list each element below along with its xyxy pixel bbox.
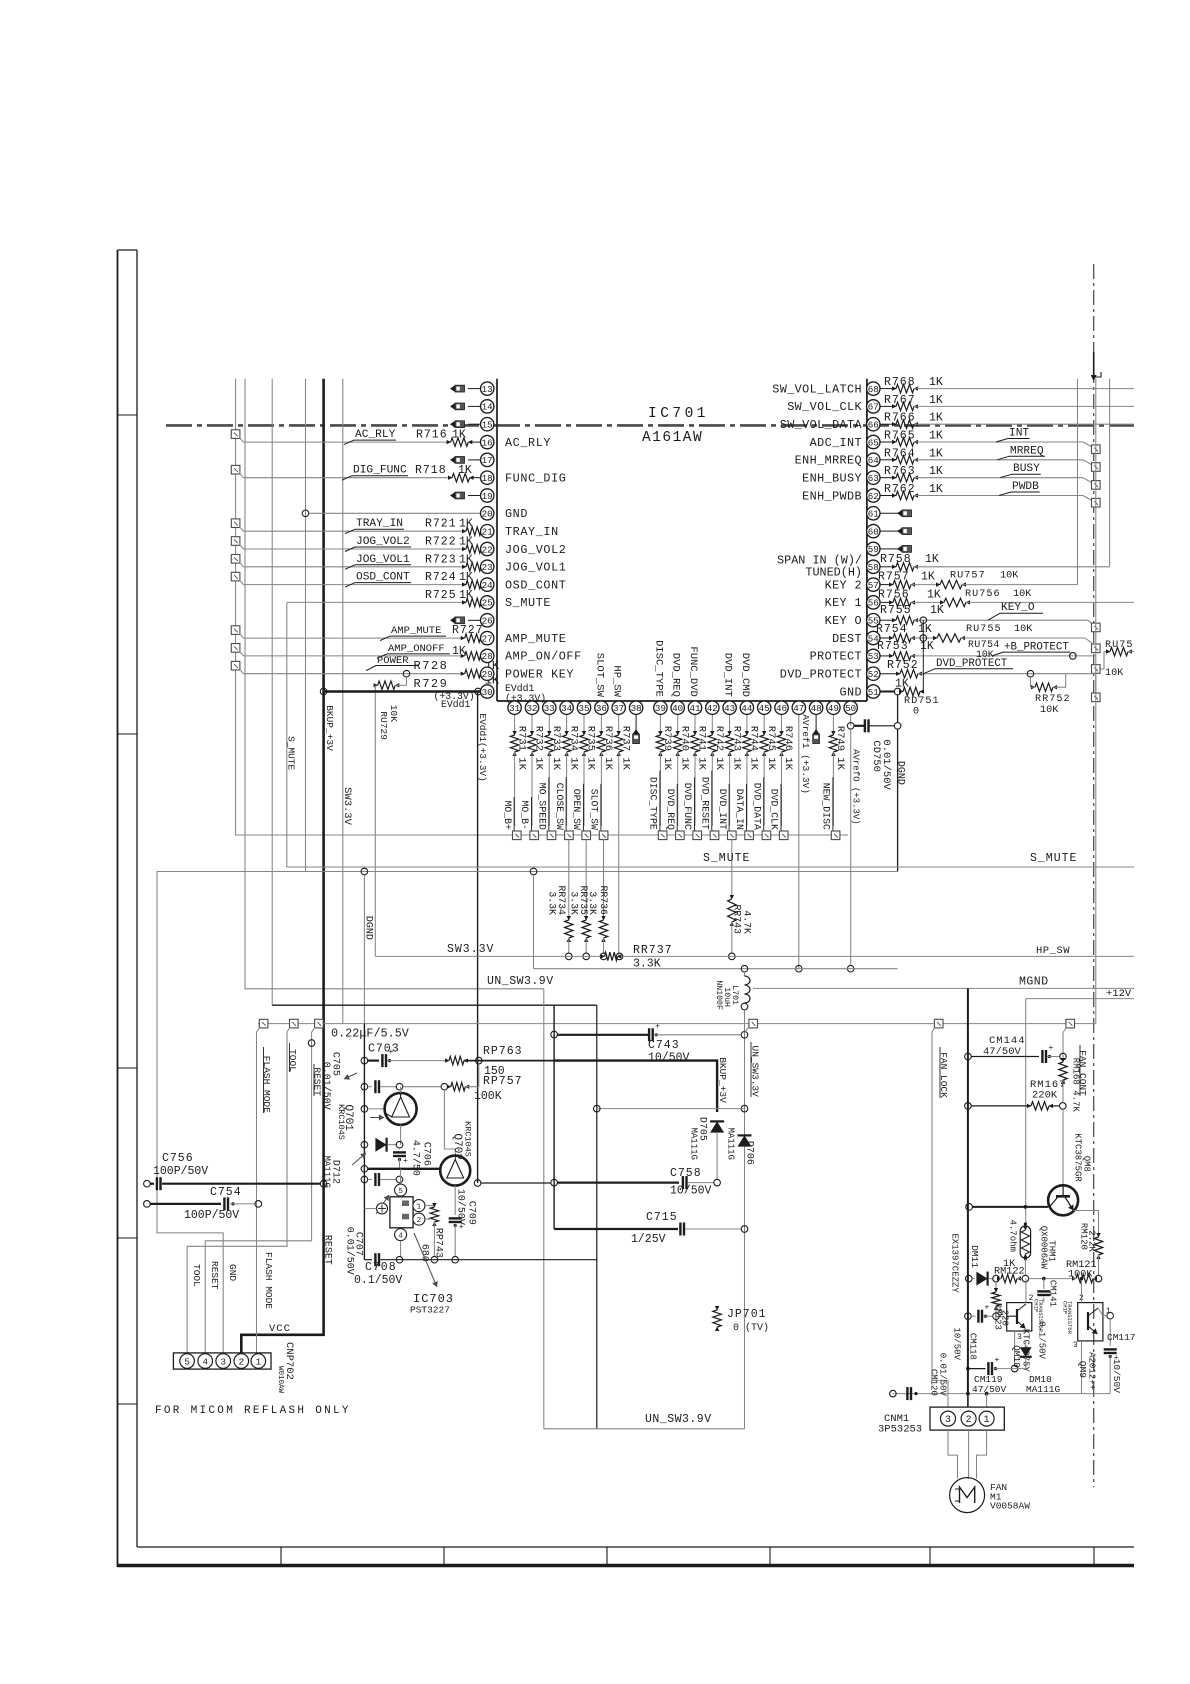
- resistor RP743 680: [425, 1205, 435, 1207]
- AVref bus y=968.7: [534, 968, 898, 970]
- svg-text:SLOT_SW: SLOT_SW: [589, 789, 600, 830]
- capacitor C708 0.1/50V: [364, 1259, 372, 1261]
- svg-text:R742 1K: R742 1K: [713, 726, 725, 771]
- resistor R754 pin 54 + RU755 10K: [880, 637, 893, 639]
- svg-text:R732 1K: R732 1K: [533, 726, 545, 771]
- svg-text:R740 1K: R740 1K: [678, 726, 690, 771]
- wire vertical x=554.1: [553, 1005, 555, 1229]
- svg-text:R721: R721: [425, 518, 457, 531]
- svg-text:RR752: RR752: [1035, 694, 1071, 705]
- svg-text:POWER: POWER: [377, 655, 409, 667]
- capacitor C715 1/25V: [554, 1228, 678, 1230]
- +12V rail: [1026, 998, 1134, 1000]
- pin 13 no-connect: [468, 388, 481, 390]
- svg-text:PROTECT: PROTECT: [810, 650, 862, 664]
- connector CNP702 W010AW: [173, 1353, 271, 1369]
- svg-text:1: 1: [999, 1309, 1004, 1318]
- diode D712 MA111G: [361, 1141, 368, 1148]
- svg-text:RP743: RP743: [433, 1228, 444, 1258]
- capacitor C706 4.7/50: [399, 1148, 401, 1150]
- svg-text:+B_PROTECT: +B_PROTECT: [1004, 641, 1069, 653]
- pin 48 no-connect: [815, 714, 817, 733]
- svg-text:TRAY_IN: TRAY_IN: [356, 518, 403, 530]
- capacitor CM117 10/50V: [1109, 1319, 1111, 1346]
- svg-text:PWDB: PWDB: [1012, 481, 1039, 493]
- svg-text:OPEN_SW: OPEN_SW: [571, 789, 582, 830]
- svg-text:W010AW: W010AW: [276, 1366, 284, 1394]
- svg-text:3: 3: [1073, 1341, 1078, 1350]
- svg-text:0.1/50V: 0.1/50V: [354, 1274, 402, 1287]
- svg-text:R756: R756: [878, 588, 910, 601]
- svg-text:1K: 1K: [459, 553, 473, 566]
- svg-text:10/50V: 10/50V: [648, 1052, 690, 1065]
- svg-text:R735 1K: R735 1K: [585, 726, 597, 771]
- svg-text:RR734: RR734: [556, 886, 567, 916]
- svg-text:1K: 1K: [929, 376, 943, 389]
- svg-text:HP_SW: HP_SW: [611, 665, 623, 697]
- svg-text:4.7/50: 4.7/50: [410, 1140, 422, 1176]
- resistor R756 pin 56 + RU756 10K: [880, 601, 893, 603]
- svg-text:TOOL: TOOL: [287, 1049, 298, 1072]
- svg-text:HP_SW: HP_SW: [1036, 945, 1070, 957]
- transistor QM8 KTC3875GR: [1048, 1185, 1078, 1215]
- dash-dot horizontal boundary: [166, 424, 1134, 427]
- svg-text:AC_RLY: AC_RLY: [355, 429, 396, 441]
- resistor R737 pin 37 HP_SW chain: [618, 714, 620, 735]
- svg-text:DISC_TYPE: DISC_TYPE: [652, 640, 664, 697]
- resistor RR736 3.3K: [603, 840, 605, 920]
- svg-text:DVD_FUNC: DVD_FUNC: [682, 783, 693, 830]
- svg-text:1: 1: [417, 1204, 422, 1212]
- svg-text:40: 40: [672, 703, 683, 714]
- svg-text:49: 49: [828, 703, 839, 714]
- svg-text:JOG_VOL2: JOG_VOL2: [505, 543, 566, 557]
- svg-text:FOR MICOM REFLASH ONLY: FOR MICOM REFLASH ONLY: [155, 1405, 351, 1417]
- resistor R729 pull and pin 29 POWER: [231, 661, 240, 670]
- svg-text:ENH_MRREQ: ENH_MRREQ: [795, 454, 862, 468]
- svg-text:65: 65: [868, 437, 879, 448]
- svg-text:46: 46: [776, 703, 787, 714]
- svg-text:C708: C708: [365, 1261, 397, 1274]
- svg-text:1K: 1K: [452, 429, 466, 442]
- svg-text:18: 18: [482, 473, 493, 484]
- UN_SW3.9V bottom line: [544, 1428, 745, 1430]
- svg-text:C756: C756: [162, 1152, 194, 1165]
- wire y=1005.6 dark: [272, 1004, 597, 1006]
- svg-text:A2012++: A2012++: [1086, 1352, 1096, 1390]
- svg-text:35: 35: [578, 703, 589, 714]
- svg-text:MO_B+: MO_B+: [502, 801, 513, 831]
- svg-text:3.3K: 3.3K: [569, 891, 580, 915]
- block left vertical: [363, 1024, 365, 1260]
- resistor R718 pin 18 row DIG_FUNC: [231, 465, 240, 474]
- wire RESET: [205, 1032, 311, 1353]
- svg-text:UN_SW3.9V: UN_SW3.9V: [645, 1413, 712, 1426]
- pin 50 AVref0 wire + capacitor CD750: [850, 714, 852, 725]
- svg-text:KEY_O: KEY_O: [1001, 602, 1035, 614]
- svg-text:R731 1K: R731 1K: [515, 726, 527, 771]
- svg-text:R767: R767: [884, 394, 916, 407]
- page border frame: [117, 250, 119, 1567]
- svg-text:R766: R766: [884, 412, 916, 425]
- diode DM11: [966, 1275, 973, 1282]
- svg-text:45: 45: [759, 703, 770, 714]
- resistor R727 pin 27 AMP_MUTE: [231, 626, 240, 635]
- svg-text:R736 1K: R736 1K: [602, 726, 614, 771]
- transistor Q701 KRC104S: [361, 1106, 368, 1113]
- resistor R724 pin 24 row OSD_CONT: [231, 572, 240, 581]
- svg-text:20: 20: [482, 509, 493, 520]
- svg-text:4: 4: [398, 1233, 403, 1241]
- svg-text:ADC_INT: ADC_INT: [810, 436, 862, 450]
- svg-text:DVD_RESET: DVD_RESET: [700, 777, 711, 830]
- fan motor M1 V0058AW: [950, 1478, 985, 1513]
- svg-text:THM1: THM1: [1046, 1240, 1056, 1262]
- svg-text:DVD_PROTECT: DVD_PROTECT: [780, 668, 862, 682]
- transistor QM10 KTC4375Y (chip): [1007, 1303, 1032, 1331]
- wire DGND drop x=364.4: [363, 875, 365, 1024]
- svg-text:0.01/50V: 0.01/50V: [880, 739, 892, 790]
- svg-text:RP763: RP763: [483, 1045, 523, 1058]
- svg-text:38: 38: [631, 703, 642, 714]
- svg-text:JOG_VOL2: JOG_VOL2: [356, 536, 410, 548]
- svg-text:1K: 1K: [925, 553, 939, 566]
- svg-text:DIG_FUNC: DIG_FUNC: [353, 465, 407, 477]
- svg-text:CM120: CM120: [928, 1369, 938, 1396]
- bottom rail fan block: [893, 1393, 1110, 1395]
- svg-text:R725: R725: [425, 589, 457, 602]
- svg-text:+: +: [655, 1022, 660, 1031]
- resistor R729: [378, 681, 396, 689]
- svg-text:MO_SPEED: MO_SPEED: [537, 783, 548, 830]
- diode DM10 MA111G: [1025, 1340, 1027, 1345]
- svg-text:RESET: RESET: [209, 1261, 220, 1290]
- connector CNM1 3P53253: [967, 1394, 969, 1408]
- pin 14 no-connect: [468, 405, 481, 407]
- resistor R745 pin 45 chain DVD_DATA: [763, 714, 765, 735]
- svg-text:R768: R768: [884, 376, 916, 389]
- row to RM121: [1029, 1278, 1073, 1280]
- svg-text:4.7K: 4.7K: [742, 910, 753, 934]
- svg-text:DVD_REQ: DVD_REQ: [670, 653, 682, 697]
- svg-text:1: 1: [984, 1414, 990, 1425]
- svg-text:C706: C706: [421, 1142, 432, 1166]
- svg-text:EX1397CEZZY: EX1397CEZZY: [949, 1233, 959, 1293]
- thermistor THM1 QX0006AW: [1024, 1222, 1027, 1225]
- resistor R740 pin 40 chain DVD_REQ: [677, 714, 679, 735]
- svg-text:AMP_MUTE: AMP_MUTE: [505, 632, 566, 646]
- wire MGND drop to CNM1: [967, 988, 969, 1393]
- wire FAN_LOCK: [932, 1032, 948, 1407]
- resistor R736 pin 36 chain SLOT_SW: [600, 714, 602, 735]
- svg-text:1K: 1K: [459, 589, 473, 602]
- svg-text:MGND: MGND: [1019, 976, 1049, 989]
- svg-text:CM118: CM118: [967, 1333, 977, 1360]
- svg-text:1K: 1K: [459, 536, 473, 549]
- svg-text:R763: R763: [884, 465, 916, 478]
- svg-text:2: 2: [417, 1217, 422, 1225]
- svg-text:CM117: CM117: [1107, 1332, 1136, 1343]
- resistor R728 pin 28 AMP_ONOFF: [231, 644, 240, 653]
- svg-text:RU75: RU75: [1105, 640, 1133, 651]
- pin 60 no-connect: [880, 530, 902, 532]
- capacitor CM118 10/50V: [965, 1313, 972, 1320]
- svg-text:43: 43: [724, 703, 735, 714]
- svg-text:3: 3: [220, 1357, 226, 1368]
- svg-text:0.01/50V: 0.01/50V: [320, 1062, 332, 1110]
- svg-text:10K: 10K: [1040, 705, 1059, 716]
- transistor QM9 A2012 (chip): [1078, 1303, 1103, 1341]
- svg-text:10K: 10K: [1000, 571, 1019, 582]
- svg-text:MO_B-: MO_B-: [519, 801, 530, 830]
- svg-text:RU729: RU729: [378, 711, 389, 740]
- resistor R766 pin 66 row: [880, 423, 896, 425]
- wire vertical x=1095.8: [1095, 379, 1097, 1024]
- svg-text:R718: R718: [415, 464, 447, 477]
- SW3.3V bus: [375, 955, 604, 957]
- svg-text:AVrefO (+3.3V): AVrefO (+3.3V): [850, 749, 860, 825]
- resistor R723 pin 23 row JOG_VOL1: [231, 555, 240, 564]
- svg-text:R765: R765: [884, 430, 916, 443]
- resistor R735 pin 35 chain OPEN_SW: [583, 714, 585, 735]
- diode D705 MA111G: [710, 1121, 724, 1132]
- svg-text:R755: R755: [880, 604, 912, 617]
- capacitor CM119 47/50V: [966, 1367, 970, 1371]
- svg-text:RU756: RU756: [965, 589, 1001, 600]
- svg-text:4: 4: [202, 1357, 208, 1368]
- svg-text:DVD_DATA: DVD_DATA: [751, 783, 762, 830]
- pin 38 no-connect: [635, 714, 637, 733]
- svg-text:68: 68: [868, 384, 879, 395]
- svg-text:52: 52: [868, 669, 879, 680]
- resistor R716 pin 16 row AC_RLY: [231, 430, 240, 439]
- svg-text:R746 1K: R746 1K: [782, 726, 794, 771]
- svg-text:DVD_PROTECT: DVD_PROTECT: [936, 658, 1008, 670]
- svg-text:60: 60: [868, 526, 879, 537]
- BKUP_+3V thick branch: [554, 1061, 717, 1112]
- svg-text:TRANSISTOR: TRANSISTOR: [1037, 1299, 1044, 1333]
- svg-text:1/25V: 1/25V: [631, 1233, 666, 1246]
- wire vertical x=1109.6: [1109, 379, 1111, 567]
- svg-text:44: 44: [741, 703, 753, 714]
- svg-text:+: +: [403, 1157, 408, 1166]
- fan wires: [948, 1430, 958, 1479]
- resistor R744 pin 44 chain DATA_IN: [746, 714, 748, 735]
- wire +12V drop: [1025, 999, 1027, 1224]
- svg-text:C715: C715: [646, 1211, 678, 1224]
- wire bus x=245 (UN_SW3.9V): [245, 379, 544, 989]
- resistor RP757 100K: [403, 1086, 441, 1088]
- svg-text:RD751: RD751: [904, 696, 940, 707]
- svg-text:21: 21: [482, 527, 494, 538]
- resistor RR743 4.7K: [731, 840, 733, 899]
- resistor RU729 10K: [374, 685, 376, 956]
- svg-text:KEY O: KEY O: [825, 614, 862, 628]
- svg-text:FUNC_DVD: FUNC_DVD: [687, 646, 699, 696]
- svg-text:DGND: DGND: [363, 916, 374, 940]
- wire bus x=272.2: [271, 379, 273, 1006]
- svg-text:63: 63: [868, 473, 879, 484]
- svg-text:IC701: IC701: [648, 406, 709, 422]
- svg-text:MA111G: MA111G: [725, 1128, 735, 1160]
- svg-text:R733 1K: R733 1K: [550, 726, 562, 771]
- wire FLASH_MODE: [256, 1032, 258, 1353]
- svg-text:+: +: [985, 1304, 990, 1313]
- svg-text:R743 1K: R743 1K: [730, 726, 742, 771]
- resistor RM120 2.2K: [1098, 1211, 1100, 1238]
- svg-text:SW_VOL_DATA: SW_VOL_DATA: [780, 418, 863, 432]
- svg-text:R723: R723: [425, 553, 457, 566]
- svg-text:1K: 1K: [929, 394, 943, 407]
- svg-text:R757: R757: [878, 571, 910, 584]
- svg-text:SW_VOL_LATCH: SW_VOL_LATCH: [772, 382, 862, 396]
- svg-text:25: 25: [482, 598, 493, 609]
- svg-text:POWER KEY: POWER KEY: [505, 668, 574, 682]
- wire vertical x=596.8: [596, 1005, 598, 1429]
- svg-text:TOOL: TOOL: [191, 1264, 202, 1287]
- resistor R746 pin 46 chain DVD_CLK: [781, 714, 783, 735]
- svg-text:DVD_REQ: DVD_REQ: [665, 789, 676, 830]
- svg-text:CM141: CM141: [1047, 1280, 1057, 1307]
- svg-text:23: 23: [482, 562, 493, 573]
- resistor R732 pin 32 chain MO_B-: [531, 714, 533, 735]
- svg-text:1K: 1K: [929, 447, 943, 460]
- svg-text:DATA_IN: DATA_IN: [734, 789, 745, 830]
- IC703 labels + arrow: [414, 1233, 437, 1287]
- pin 26 no-connect: [468, 619, 481, 621]
- svg-text:BKUP_+3V: BKUP_+3V: [324, 705, 335, 751]
- svg-text:3P53253: 3P53253: [878, 1424, 922, 1436]
- jumper JP701 0 (TV): [713, 1310, 721, 1327]
- resistor RM122 1K: [1001, 1274, 1017, 1282]
- svg-text:S_MUTE: S_MUTE: [286, 736, 297, 771]
- svg-text:BUSY: BUSY: [1013, 463, 1040, 475]
- svg-text:JOG_VOL1: JOG_VOL1: [505, 561, 566, 575]
- svg-text:R749 1K: R749 1K: [834, 726, 846, 771]
- svg-text:R745 1K: R745 1K: [765, 726, 777, 771]
- svg-text:KTC3875GR: KTC3875GR: [1072, 1133, 1082, 1182]
- capacitor CM120 0.01/50V: [906, 1387, 908, 1400]
- svg-text:V0058AW: V0058AW: [990, 1501, 1030, 1512]
- resistor R757 pin 57 + RU757 10K: [880, 584, 893, 586]
- svg-text:220K: 220K: [1032, 1090, 1058, 1102]
- svg-text:C709: C709: [466, 1201, 477, 1225]
- svg-text:MA111G: MA111G: [688, 1128, 698, 1160]
- svg-text:R737 1K: R737 1K: [619, 726, 631, 771]
- S_MUTE bus: [287, 866, 1134, 868]
- svg-text:R729: R729: [414, 677, 449, 691]
- capacitor C705: [361, 1083, 368, 1090]
- resistor R764 pin 64 row MRREQ: [880, 459, 896, 461]
- svg-text:GND: GND: [840, 685, 862, 699]
- dash-dot vertical boundary: [1093, 264, 1095, 1487]
- svg-text:56: 56: [868, 598, 879, 609]
- svg-text:34: 34: [561, 703, 573, 714]
- capacitor CM141 0.1/50V: [1043, 1279, 1045, 1289]
- svg-text:TRANSISTOR: TRANSISTOR: [1066, 1301, 1073, 1335]
- svg-text:GND: GND: [227, 1264, 238, 1281]
- svg-text:KEY 1: KEY 1: [825, 596, 862, 610]
- wire S_MUTE from pin25: [286, 602, 288, 867]
- svg-text:R764: R764: [884, 447, 916, 460]
- svg-text:FLASH MODE: FLASH MODE: [263, 1252, 274, 1309]
- svg-text:BKUP_+3V: BKUP_+3V: [717, 1057, 728, 1103]
- svg-text:33: 33: [544, 703, 555, 714]
- resistor R733 pin 33 chain MO_SPEED: [548, 714, 550, 735]
- svg-text:48: 48: [811, 703, 822, 714]
- svg-text:0.01/50V: 0.01/50V: [937, 1353, 947, 1397]
- svg-text:R724: R724: [425, 571, 457, 584]
- svg-text:S_MUTE: S_MUTE: [505, 596, 551, 610]
- svg-text:EVdd1(+3.3V): EVdd1(+3.3V): [477, 713, 488, 781]
- svg-text:CLOSE_SW: CLOSE_SW: [554, 783, 565, 830]
- IC703 PST3227 reset IC: [400, 1169, 402, 1184]
- svg-text:3.3K: 3.3K: [547, 891, 558, 915]
- svg-text:1K: 1K: [918, 623, 932, 636]
- resistor RU753 10K to edge: [1096, 652, 1110, 669]
- resistor R762 pin 62 row PWDB: [880, 495, 896, 497]
- capacitor CM144 47/50V: [965, 1053, 972, 1060]
- svg-text:39: 39: [655, 703, 666, 714]
- svg-text:5: 5: [398, 1188, 403, 1196]
- svg-text:30: 30: [482, 687, 493, 698]
- resistor RR752 10K: [1030, 677, 1032, 687]
- svg-text:10K: 10K: [1013, 589, 1032, 600]
- svg-text:10/50V: 10/50V: [670, 1185, 712, 1198]
- pin 59 no-connect: [880, 548, 902, 550]
- capacitor C758 10/50V: [474, 1180, 481, 1187]
- pad UN_SW3.3V: [749, 1019, 758, 1028]
- svg-text:UN_SW3.9V: UN_SW3.9V: [487, 975, 554, 988]
- svg-text:C758: C758: [670, 1167, 702, 1180]
- svg-text:PST3227: PST3227: [410, 1305, 450, 1316]
- pin 19 no-connect: [468, 495, 481, 497]
- svg-text:+: +: [1049, 1044, 1054, 1053]
- pad FAN_CONT: [1066, 1019, 1075, 1028]
- svg-text:AVref1 (+3.3V): AVref1 (+3.3V): [800, 714, 811, 794]
- svg-text:2: 2: [238, 1357, 244, 1368]
- wire TOOL: [187, 1032, 287, 1353]
- pin 30 EVdd1 +3.3V row: [324, 690, 481, 692]
- svg-text:16: 16: [482, 437, 493, 448]
- svg-text:C754: C754: [210, 1186, 242, 1199]
- svg-text:1K: 1K: [930, 604, 944, 617]
- capacitor C756 100P/50V: [144, 1180, 151, 1187]
- svg-text:1K: 1K: [929, 412, 943, 425]
- svg-text:ENH_BUSY: ENH_BUSY: [802, 472, 862, 486]
- capacitor C754 100P/50V: [144, 1201, 151, 1208]
- svg-text:SLOT_SW: SLOT_SW: [593, 653, 605, 698]
- wire bus x=342.8 SW3.3V: [342, 379, 344, 1024]
- svg-text:14: 14: [482, 402, 494, 413]
- wire x=533.5 drop: [533, 875, 535, 969]
- pin 61 no-connect: [880, 512, 902, 514]
- pin 17 no-connect: [468, 459, 481, 461]
- svg-text:37: 37: [613, 703, 624, 714]
- svg-text:RESET: RESET: [322, 1235, 333, 1265]
- svg-text:JP701: JP701: [727, 1308, 767, 1321]
- svg-text:DGND: DGND: [895, 761, 906, 785]
- svg-text:10K: 10K: [1105, 668, 1124, 679]
- svg-text:JOG_VOL1: JOG_VOL1: [356, 554, 410, 566]
- svg-text:R754: R754: [876, 623, 908, 636]
- svg-text:13: 13: [482, 384, 493, 395]
- svg-text:TUNED(H): TUNED(H): [805, 565, 862, 579]
- svg-text:28: 28: [482, 651, 493, 662]
- svg-text:R752: R752: [887, 659, 919, 672]
- svg-text:S_MUTE: S_MUTE: [1030, 852, 1077, 865]
- svg-text:41: 41: [689, 703, 701, 714]
